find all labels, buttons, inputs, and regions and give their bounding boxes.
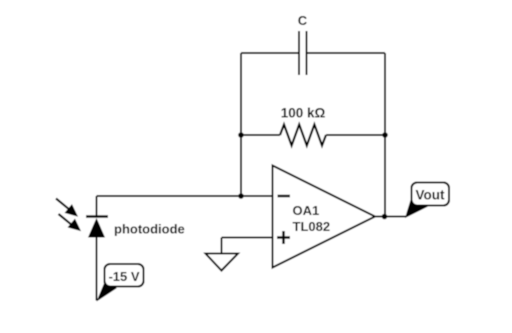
svg-text:100 kΩ: 100 kΩ [281, 106, 326, 121]
svg-text:C: C [298, 13, 308, 28]
svg-text:TL082: TL082 [293, 219, 331, 234]
svg-text:Vout: Vout [416, 188, 445, 203]
svg-text:OA1: OA1 [293, 203, 320, 218]
svg-text:-15 V: -15 V [108, 269, 139, 284]
svg-text:photodiode: photodiode [114, 222, 185, 237]
